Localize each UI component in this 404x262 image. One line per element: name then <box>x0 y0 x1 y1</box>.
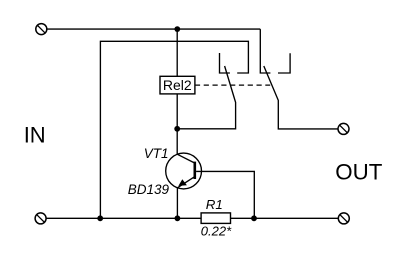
collector diagonal <box>177 154 194 163</box>
svg-text:R1: R1 <box>206 197 223 212</box>
wire bottom rail right <box>231 217 339 219</box>
dashed mechanical link from Rel2 to contacts <box>195 84 270 86</box>
collector lead <box>176 129 178 155</box>
svg-text:BD139: BD139 <box>128 182 170 197</box>
switch K2 left prong from top rail <box>260 29 270 73</box>
node collector junction <box>174 126 180 132</box>
svg-text:IN: IN <box>24 123 46 148</box>
wire bottom rail left <box>46 217 201 219</box>
node top junction <box>174 26 180 32</box>
svg-text:Rel2: Rel2 <box>163 77 192 93</box>
switch K1 fixed stub contact <box>220 53 230 73</box>
base bar <box>194 162 197 179</box>
node emitter junction <box>175 215 181 221</box>
transistor body circle <box>166 153 202 189</box>
terminal X4 (OUT bottom-right) <box>338 213 349 224</box>
node bottom-left junction <box>97 215 103 221</box>
wire top rail <box>47 28 260 30</box>
svg-text:OUT: OUT <box>335 159 382 184</box>
switch K2 fixed stub contact <box>278 53 290 73</box>
node base/R1 junction <box>251 215 257 221</box>
resistor R1 <box>201 213 230 224</box>
switch K1 mover and wire to collector node <box>177 66 235 129</box>
emitter lead <box>176 188 178 219</box>
terminal X3 (OUT upper) <box>338 123 349 134</box>
transistor VT1 <box>166 129 255 219</box>
svg-text:VT1: VT1 <box>144 146 169 161</box>
switch K2 mover and wire to OUT terminal <box>264 66 338 129</box>
wire bottom rail to switch K1 fixed contact <box>100 41 248 218</box>
terminal X1 (IN top-left) <box>36 24 47 35</box>
wire top node to relay coil <box>176 29 178 76</box>
base lead wire to R1 node <box>196 171 254 218</box>
emitter diagonal <box>177 177 194 188</box>
relay coil Rel2 <box>160 76 195 94</box>
wire relay coil to collector node <box>176 94 178 129</box>
emitter arrow <box>178 179 187 186</box>
svg-text:0.22*: 0.22* <box>201 224 232 239</box>
terminal X2 (IN bottom-left) <box>35 213 46 224</box>
